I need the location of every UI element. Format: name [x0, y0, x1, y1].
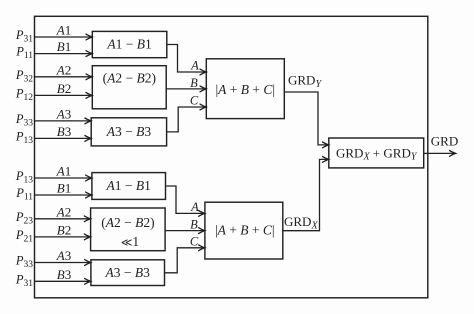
wire A into |A+B+C| bottom	[166, 186, 205, 213]
svg-text:B3: B3	[57, 267, 71, 282]
wire input A3 bottom	[35, 262, 91, 264]
wire input A2 top	[35, 76, 92, 78]
wire input B2 bottom	[35, 236, 90, 238]
box A3-B3 top	[91, 118, 166, 146]
svg-text:A2: A2	[56, 204, 71, 219]
op block |A+B+C| bottom	[205, 202, 283, 259]
wire input A2 bottom	[35, 218, 90, 220]
arrowheads at box A1-B1 bottom	[86, 175, 92, 181]
svg-text:|A + B + C|: |A + B + C|	[215, 222, 275, 237]
wire GRDY to adder	[284, 92, 328, 145]
svg-text:C: C	[190, 235, 199, 249]
arrowheads at box A1-B1 top	[86, 34, 92, 40]
svg-text:B1: B1	[57, 39, 71, 54]
svg-text:A1 − B1: A1 − B1	[106, 178, 151, 193]
wire input A1 bottom	[35, 177, 92, 179]
svg-text:A: A	[190, 59, 199, 73]
svg-text:(A2 − B2): (A2 − B2)	[103, 70, 156, 85]
svg-text:B2: B2	[57, 222, 71, 237]
wire input B2 top	[35, 94, 92, 96]
svg-text:C: C	[190, 94, 199, 108]
arrowheads at |A+B+C| bottom	[199, 211, 205, 217]
box (A2-B2) top	[92, 66, 166, 109]
wire C into |A+B+C| bottom	[165, 248, 205, 273]
box A3-B3 bottom	[91, 260, 165, 286]
wire C into |A+B+C| top	[167, 107, 206, 132]
svg-text:A3: A3	[56, 106, 71, 121]
arrowheads at |A+B+C| top	[200, 69, 206, 75]
arrowheads at box (A2-B2) top	[86, 74, 92, 80]
svg-text:A3 − B3: A3 − B3	[105, 265, 151, 280]
wire B into |A+B+C| bottom	[165, 230, 205, 232]
svg-text:B: B	[190, 76, 198, 90]
box A1-B1 bottom	[92, 173, 166, 200]
svg-text:A1: A1	[56, 23, 71, 38]
wire GRDX to adder	[283, 159, 329, 230]
svg-text:≪1: ≪1	[121, 234, 139, 249]
svg-text:B3: B3	[57, 124, 71, 139]
box A1-B1 top	[92, 31, 167, 57]
system boundary box	[35, 16, 428, 298]
arrowheads at box A3-B3 top	[85, 118, 91, 124]
op block |A+B+C| top	[206, 59, 284, 119]
wire B into |A+B+C| top	[166, 88, 206, 90]
wire input A3 top	[35, 120, 91, 122]
wire input B3 top	[35, 137, 91, 139]
svg-text:A: A	[190, 200, 199, 214]
arrowheads at box (A2-B2) bottom	[84, 216, 90, 222]
svg-text:B: B	[190, 217, 198, 231]
arrowheads at adder	[323, 142, 329, 148]
svg-text:A3: A3	[56, 248, 71, 263]
wire input B1 top	[35, 53, 92, 55]
wire input B3 bottom	[35, 280, 91, 282]
svg-text:A1: A1	[56, 164, 71, 179]
wire input B1 bottom	[35, 194, 92, 196]
svg-text:A3 − B3: A3 − B3	[106, 124, 152, 139]
adder box GRDX+GRDY	[329, 138, 424, 168]
arrowhead GRD output	[450, 151, 456, 157]
wire A into |A+B+C| top	[167, 45, 206, 73]
wire input A1 top	[35, 36, 92, 38]
box (A2-B2) shift bottom	[91, 208, 166, 251]
svg-text:B2: B2	[57, 81, 71, 96]
svg-text:|A + B + C|: |A + B + C|	[215, 82, 275, 97]
svg-text:GRDX + GRDY: GRDX + GRDY	[336, 146, 418, 163]
svg-text:B1: B1	[57, 181, 71, 196]
svg-text:A1 − B1: A1 − B1	[106, 37, 151, 52]
svg-text:GRD: GRD	[431, 133, 458, 148]
arrowheads at box A3-B3 bottom	[85, 260, 91, 266]
wire GRD output	[424, 152, 456, 154]
svg-text:A2: A2	[56, 62, 71, 77]
svg-text:(A2 − B2): (A2 − B2)	[101, 215, 154, 230]
